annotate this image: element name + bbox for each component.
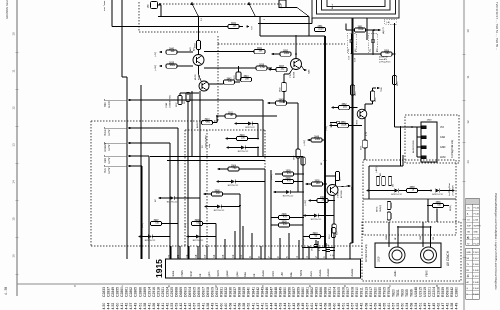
diode D6909 <box>241 146 245 150</box>
diode D6907 <box>170 196 174 200</box>
svg-text:R3863: R3863 <box>315 287 319 297</box>
svg-text:MUTE: MUTE <box>195 74 197 80</box>
scart input box 1830 <box>279 0 286 8</box>
svg-text:20: 20 <box>176 254 180 258</box>
svg-text:C2201: C2201 <box>428 287 432 297</box>
wire t833 emitter to cap <box>289 69 293 75</box>
svg-text:C2860: C2860 <box>455 287 459 297</box>
wire r1909 <box>275 173 283 175</box>
svg-text:BZX79-C2: BZX79-C2 <box>245 127 255 129</box>
wire r3859 right <box>349 125 363 127</box>
wire cinch nf <box>397 227 399 247</box>
svg-text:750: 750 <box>155 222 160 225</box>
svg-text:3913: 3913 <box>204 119 210 121</box>
wire r3904b <box>303 236 310 238</box>
svg-text:R3857: R3857 <box>292 287 296 297</box>
svg-text:4-42: 4-42 <box>165 303 169 310</box>
resistor R3868 <box>407 188 418 192</box>
svg-text:P 4-61: P 4-61 <box>474 213 480 215</box>
svg-text:TVR 3749 ST ..., TVR 51 ..., T: TVR 3749 ST ..., TVR 51 ..., TVR 55 ... <box>495 2 499 50</box>
wire vertical long left bus <box>126 77 128 259</box>
svg-text:4-44: 4-44 <box>283 303 287 310</box>
capacitor C2906 <box>279 215 290 219</box>
svg-text:AudioE: AudioE <box>351 268 354 276</box>
svg-text:4-42: 4-42 <box>188 303 192 310</box>
svg-text:RED: RED <box>104 158 107 163</box>
svg-text:4-47: 4-47 <box>256 303 260 310</box>
svg-text:(+12V): (+12V) <box>304 140 306 146</box>
svg-text:3850: 3850 <box>283 50 289 52</box>
cable loom box inner <box>327 0 385 7</box>
svg-text:GND: GND <box>420 235 422 240</box>
svg-text:4-43: 4-43 <box>134 303 138 310</box>
wire t820 emitter down <box>333 196 335 225</box>
svg-text:GREEN: GREEN <box>104 143 107 152</box>
svg-text:C2916: C2916 <box>152 287 156 297</box>
resistor R3917 vertical <box>301 157 305 165</box>
svg-text:P 4-48: P 4-48 <box>473 282 479 284</box>
reference table lower <box>466 248 480 299</box>
wire connector pins common <box>416 127 418 157</box>
svg-text:4-57: 4-57 <box>391 303 395 310</box>
svg-text:(+5V): (+5V) <box>155 52 157 57</box>
resistor R3837 vertical <box>186 93 190 102</box>
svg-text:1848: 1848 <box>427 120 433 122</box>
svg-text:4-41: 4-41 <box>251 303 255 310</box>
transistor T835 <box>357 109 367 119</box>
svg-text:4-61: 4-61 <box>310 303 314 310</box>
svg-text:SECV: SECV <box>217 270 220 277</box>
svg-text:4-60: 4-60 <box>224 303 228 310</box>
svg-text:C2921: C2921 <box>161 287 165 297</box>
capacitor C2837 vertical <box>178 96 182 105</box>
svg-text:(+5V): (+5V) <box>326 126 328 131</box>
resistor R3905 <box>312 182 323 186</box>
svg-text:2916: 2916 <box>325 245 329 247</box>
svg-text:blue: blue <box>244 271 247 276</box>
connector 1915 pin stubs <box>170 246 172 259</box>
wire collector T831 right <box>204 51 254 53</box>
svg-text:4-53: 4-53 <box>170 303 174 310</box>
arrow SAS out <box>304 69 307 72</box>
svg-text:10: 10 <box>11 32 15 36</box>
resistor R3909 <box>279 223 290 227</box>
wire vertical x199 <box>198 17 200 42</box>
diode D6869 <box>394 189 398 193</box>
svg-text:R3859: R3859 <box>296 287 300 297</box>
svg-text:CT835: CT835 <box>357 119 359 126</box>
wire d6906 right <box>318 215 334 217</box>
svg-text:100k: 100k <box>315 138 321 141</box>
wire right cluster <box>204 67 256 69</box>
wire x303 vertical <box>302 157 304 260</box>
svg-text:C2869: C2869 <box>143 287 147 297</box>
svg-text:GND: GND <box>272 271 275 277</box>
resistor R3861 <box>355 28 366 32</box>
svg-text:grün: grün <box>208 271 211 276</box>
svg-text:3907: 3907 <box>153 220 159 222</box>
svg-text:493: 493 <box>380 173 382 176</box>
node coupler <box>159 3 161 5</box>
svg-text:FBAS: FBAS <box>426 270 429 276</box>
svg-text:(+5V): (+5V) <box>185 223 187 228</box>
wire x401 down <box>400 127 402 166</box>
capacitor C2201 electrolytic <box>363 140 368 148</box>
switch contact S3 <box>297 8 309 17</box>
svg-text:3904: 3904 <box>231 165 237 167</box>
svg-text:SCM: SCM <box>190 271 193 276</box>
dashed box cap C2862 <box>369 34 378 54</box>
switch contact S1 <box>191 2 194 6</box>
svg-text:4-50: 4-50 <box>102 303 106 310</box>
arrow r3905 <box>305 183 308 186</box>
svg-text:1909: 1909 <box>285 170 291 172</box>
svg-text:100k: 100k <box>284 52 290 55</box>
svg-text:4-57: 4-57 <box>306 303 310 310</box>
svg-text:R3838: R3838 <box>238 287 242 297</box>
svg-text:4-44: 4-44 <box>269 303 273 310</box>
svg-text:AudL: AudL <box>310 270 313 276</box>
arrow TXT output <box>246 25 249 28</box>
svg-text:4-41: 4-41 <box>233 303 237 310</box>
wire bus to connector 1848 <box>395 126 422 128</box>
svg-text:100: 100 <box>228 80 233 83</box>
svg-text:ACM: ACM <box>440 156 445 159</box>
svg-text:3868: 3868 <box>409 187 415 189</box>
transistor T836 <box>199 81 209 91</box>
svg-text:R1908: R1908 <box>437 287 441 297</box>
wire BLUE horizontal <box>131 127 178 129</box>
svg-text:750: 750 <box>437 204 442 207</box>
svg-text:4-41: 4-41 <box>120 303 124 310</box>
svg-text:3856: 3856 <box>384 50 390 52</box>
arrow M5 out <box>348 185 351 188</box>
svg-text:4-60: 4-60 <box>220 303 224 310</box>
wire r3861 nodes <box>346 29 355 31</box>
wire x271 rail <box>270 170 272 247</box>
svg-text:R3831: R3831 <box>220 287 224 297</box>
resistor R3840 <box>166 50 177 54</box>
wire x437 vertical <box>436 209 438 223</box>
svg-text:blau: blau <box>290 271 293 276</box>
resistor R3907 <box>151 221 162 225</box>
svg-text:AudioR: AudioR <box>327 268 330 276</box>
svg-text:Plattenabbildungen und Schaltp: Plattenabbildungen und Schaltpläne / Lay… <box>494 193 498 290</box>
svg-text:K: K <box>74 284 76 288</box>
svg-text:4-43: 4-43 <box>346 303 350 310</box>
svg-text:C2862: C2862 <box>129 287 133 297</box>
arrow nf av <box>452 189 455 192</box>
svg-text:1k2: 1k2 <box>280 68 285 71</box>
svg-text:R3862: R3862 <box>310 287 314 297</box>
svg-text:R3861: R3861 <box>306 287 310 297</box>
arrow supply 5V b <box>159 65 162 68</box>
cinch jack video inner <box>424 250 434 260</box>
svg-text:at Plug Print: at Plug Print <box>379 61 391 64</box>
wire 3910 right <box>248 138 259 140</box>
svg-text:front A/V: front A/V <box>379 58 388 61</box>
arrow d6904 <box>186 235 189 238</box>
svg-text:P 4-61: P 4-61 <box>473 252 479 254</box>
svg-text:D6904: D6904 <box>188 287 192 297</box>
svg-text:4-45: 4-45 <box>315 303 319 310</box>
svg-text:R3848: R3848 <box>274 287 278 297</box>
transistor T820 <box>327 185 338 196</box>
svg-text:4-47: 4-47 <box>441 303 445 310</box>
svg-text:100n: 100n <box>318 28 324 31</box>
svg-text:13: 13 <box>11 143 15 147</box>
arrow d6906a <box>204 205 207 208</box>
svg-text:P 4-41: P 4-41 <box>473 294 479 296</box>
svg-text:VCI: VCI <box>440 126 444 129</box>
svg-text:CT820: CT820 <box>338 191 340 198</box>
connector 1848 body <box>421 122 437 162</box>
resistor R3860 vertical <box>370 91 374 101</box>
wire cap down <box>283 92 285 104</box>
svg-text:U1848: U1848 <box>414 287 418 297</box>
svg-text:R3908: R3908 <box>351 287 355 297</box>
resistor R3913 <box>202 120 213 124</box>
wire RED horizontal <box>131 155 149 157</box>
cinch jack audio outer <box>389 247 405 263</box>
svg-text:BC848: BC848 <box>294 71 296 78</box>
svg-text:750: 750 <box>232 167 237 170</box>
svg-text:FBAS: FBAS <box>181 270 184 277</box>
svg-text:C2833: C2833 <box>102 287 106 297</box>
svg-text:4-60: 4-60 <box>116 303 120 310</box>
svg-text:19: 19 <box>185 254 189 258</box>
svg-text:BZX79-C12: BZX79-C12 <box>167 202 178 204</box>
wire BLK horizontal <box>131 165 142 167</box>
wire d6868 right <box>440 190 452 192</box>
svg-text:750: 750 <box>196 222 201 225</box>
svg-text:4-58: 4-58 <box>143 303 147 310</box>
svg-text:4-42: 4-42 <box>360 303 364 310</box>
svg-text:R3847: R3847 <box>269 287 273 297</box>
svg-text:D6909: D6909 <box>211 287 215 297</box>
wire r3856 <box>373 53 381 55</box>
arrow d6906 <box>303 214 306 217</box>
svg-text:C2204: C2204 <box>432 287 436 297</box>
svg-text:4-43: 4-43 <box>292 303 296 310</box>
wire tuner vertical <box>111 0 113 27</box>
svg-text:4-58: 4-58 <box>409 303 413 310</box>
wire bus y156 <box>150 156 303 158</box>
wire cinch gnd1 <box>388 222 390 247</box>
svg-text:15: 15 <box>11 217 15 221</box>
capacitor C2918 <box>314 244 318 246</box>
svg-text:CINC: CINC <box>281 3 283 8</box>
wire BLK vertical <box>141 166 143 259</box>
wire x200 down <box>199 91 201 259</box>
svg-text:GND: GND <box>474 231 479 233</box>
svg-text:R3841: R3841 <box>251 287 255 297</box>
wire d6909 right <box>245 147 258 149</box>
svg-text:BLK: BLK <box>104 168 107 173</box>
svg-text:BZX79-C12: BZX79-C12 <box>311 219 322 221</box>
svg-text:GRUNDIG Service: GRUNDIG Service <box>5 0 9 19</box>
resistor R3856 <box>381 52 392 56</box>
audio bus wire x352 thick <box>352 18 354 243</box>
wire t835 collector <box>364 104 366 111</box>
cinch jack video outer <box>421 247 437 263</box>
wire d6903 <box>276 191 286 193</box>
resistor R3838 <box>256 66 267 70</box>
svg-text:2909: 2909 <box>285 178 291 180</box>
svg-text:(+B): (+B) <box>386 22 390 24</box>
cable loom box outer <box>312 0 399 18</box>
cable loom box third <box>322 0 391 10</box>
wire T836 base <box>187 93 189 96</box>
wire T831 to T836 <box>198 66 200 75</box>
bottom grid ruler line <box>17 283 464 285</box>
capacitor C2865 vertical <box>387 212 391 220</box>
arrow r1908 <box>308 199 311 202</box>
svg-text:P 4-44: P 4-44 <box>473 288 479 290</box>
svg-text:BZX79-C12: BZX79-C12 <box>214 210 225 212</box>
wire d6905 right <box>152 236 170 238</box>
svg-text:D6912: D6912 <box>215 287 219 297</box>
svg-text:T831: T831 <box>396 289 400 297</box>
svg-text:R3856: R3856 <box>287 287 291 297</box>
svg-text:BZX79-C12: BZX79-C12 <box>432 194 443 196</box>
svg-text:GND: GND <box>440 146 446 149</box>
wire r3909 <box>271 224 279 226</box>
diode D6868 <box>435 189 439 193</box>
svg-text:4-41: 4-41 <box>161 303 165 310</box>
svg-text:2861: 2861 <box>317 26 323 28</box>
svg-text:4-57: 4-57 <box>351 303 355 310</box>
svg-text:4-47: 4-47 <box>215 303 219 310</box>
svg-text:6800: 6800 <box>170 64 176 67</box>
wire B3C horizontal <box>131 99 263 101</box>
svg-text:B3C: B3C <box>104 102 107 107</box>
svg-text:R3846: R3846 <box>265 287 269 297</box>
svg-text:3908: 3908 <box>214 190 220 192</box>
svg-text:10: 10 <box>466 29 470 33</box>
wire r3904 right <box>239 168 265 170</box>
dashed box for front AV lower <box>363 199 456 235</box>
diode D6903 <box>286 190 290 194</box>
svg-text:TVCM: TVCM <box>300 270 303 277</box>
svg-text:3911: 3911 <box>228 112 234 114</box>
svg-text:3848: 3848 <box>314 136 320 138</box>
svg-text:P 4-57: P 4-57 <box>473 258 479 260</box>
svg-text:R7905: R7905 <box>382 287 386 297</box>
svg-text:R3837: R3837 <box>233 287 237 297</box>
wire x192 down <box>191 91 193 157</box>
svg-text:1915: 1915 <box>154 259 164 278</box>
diode D6906a <box>217 205 221 209</box>
diode D6905 <box>148 235 152 239</box>
svg-text:grau: grau <box>236 271 239 276</box>
capacitor C2862 electrolytic <box>371 39 375 41</box>
svg-text:5,6V: 5,6V <box>355 57 357 62</box>
resistor R3832 <box>196 41 200 50</box>
svg-text:11: 11 <box>11 69 15 72</box>
svg-text:BZX79-C12: BZX79-C12 <box>145 240 156 242</box>
connector 1915 body <box>166 259 361 278</box>
wire B3C vertical <box>262 100 264 157</box>
resistor R3863 vertical <box>350 85 354 95</box>
svg-text:4-62: 4-62 <box>437 303 441 310</box>
resistor R3849 <box>276 101 287 105</box>
wire caps bottom <box>353 53 374 55</box>
svg-text:4-41: 4-41 <box>147 303 151 310</box>
left grid tick marks <box>16 51 19 53</box>
svg-text:4-53: 4-53 <box>396 303 400 310</box>
resistor R3902 vertical <box>336 172 340 181</box>
svg-text:SAS: SAS <box>308 69 311 74</box>
wire T836 collector <box>209 83 224 85</box>
svg-text:T835: T835 <box>405 289 409 297</box>
svg-text:for front A/V only: for front A/V only <box>365 244 368 262</box>
transistor T831 <box>193 55 204 66</box>
svg-text:4-61: 4-61 <box>387 303 391 310</box>
svg-text:R3868: R3868 <box>324 287 328 297</box>
wire bus y161 <box>167 160 265 162</box>
wire r3868 <box>399 190 407 192</box>
resistor R3920 vertical <box>332 224 336 233</box>
terminal circle NF <box>337 121 340 124</box>
svg-text:C2860: C2860 <box>120 287 124 297</box>
arrow supply 5V a <box>159 51 162 54</box>
svg-text:4-56: 4-56 <box>152 303 156 310</box>
capacitor C2916 <box>326 249 330 251</box>
svg-text:P 4-46: P 4-46 <box>473 270 479 272</box>
svg-text:4-46: 4-46 <box>156 303 160 310</box>
svg-text:100k: 100k <box>358 28 364 31</box>
wire x188 down <box>187 102 189 260</box>
svg-text:R3920: R3920 <box>373 287 377 297</box>
resistor R592 vertical <box>388 177 392 186</box>
wire loom stub <box>366 18 368 40</box>
wire c2201 down <box>364 148 366 160</box>
dashed SCART sub-box <box>185 129 265 131</box>
svg-text:R3871: R3871 <box>328 287 332 297</box>
svg-text:3862: 3862 <box>341 104 347 106</box>
svg-text:AV CINCH: AV CINCH <box>446 250 450 266</box>
svg-text:R3836: R3836 <box>229 287 233 297</box>
svg-text:4-44: 4-44 <box>107 303 111 310</box>
resistor R3842 right of T836 <box>224 80 235 84</box>
wire t835 emitter <box>364 118 366 141</box>
wire y36 bus <box>260 35 325 37</box>
resistor R1909 <box>283 172 294 176</box>
arrow d6908 <box>216 180 219 183</box>
svg-text:to TV: to TV <box>108 157 111 163</box>
right page ruler line <box>463 0 465 310</box>
svg-text:150: 150 <box>241 137 246 140</box>
svg-text:2906: 2906 <box>281 214 287 216</box>
resistor R3831 <box>228 24 239 28</box>
svg-text:D6869: D6869 <box>179 287 183 297</box>
svg-text:AudioL: AudioL <box>319 268 322 276</box>
svg-text:4-43: 4-43 <box>319 303 323 310</box>
wire c2909 <box>275 181 283 183</box>
resistor R3848 <box>311 138 322 142</box>
svg-text:C2925: C2925 <box>170 287 174 297</box>
svg-text:BZX79-C12: BZX79-C12 <box>193 240 204 242</box>
wire d6912 right <box>252 123 258 125</box>
svg-text:4-42: 4-42 <box>446 303 450 310</box>
right grid tick marks <box>463 53 466 55</box>
svg-text:D6906: D6906 <box>197 287 201 297</box>
wire GREEN vertical <box>169 143 171 259</box>
wire d6906a right <box>221 206 240 208</box>
svg-text:C2855: C2855 <box>116 287 120 297</box>
svg-text:3939-SCART: 3939-SCART <box>205 134 208 148</box>
